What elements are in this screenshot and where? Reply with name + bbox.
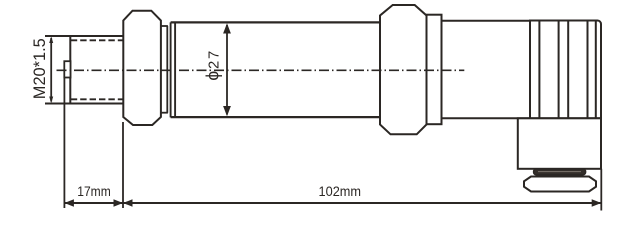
svg-text:102mm: 102mm [319, 183, 362, 199]
svg-text:M20*1.5: M20*1.5 [31, 38, 49, 99]
svg-text:17mm: 17mm [77, 183, 111, 199]
